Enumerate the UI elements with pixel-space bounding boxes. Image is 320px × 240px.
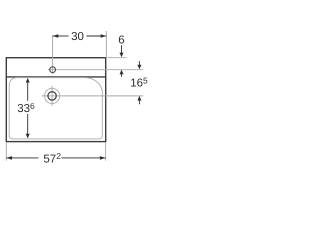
dim 57.2 extension line right	[105, 143, 107, 161]
tap hole centerline vertical (extension for dim 30)	[52, 35, 54, 74]
deck front edge line	[6, 76, 107, 78]
dim 33.6 down arrowhead	[26, 134, 30, 139]
dim 16.5 upper leader	[138, 61, 140, 66]
dim 30 extension line right	[105, 31, 107, 57]
dim 6 lower leader	[121, 74, 123, 77]
washbasin outer outline	[6, 58, 105, 142]
dim 33.6 lower segment	[27, 114, 29, 135]
dim 16.5 up arrowhead	[137, 96, 141, 101]
dim 6 down arrowhead	[120, 53, 124, 58]
drain inner circle	[48, 92, 56, 100]
dim 16.5 lower leader	[138, 100, 140, 105]
top edge extension line right	[107, 57, 126, 59]
dim 33.6 up arrowhead	[26, 78, 30, 83]
basin inner outline	[9, 78, 102, 139]
tap hole centerline horizontal (reference for dim 6 / 16.5)	[48, 69, 143, 71]
dim 57.2 line left segment	[6, 157, 38, 159]
dim 30 line left segment	[53, 35, 69, 37]
dim 6 upper leader	[121, 45, 123, 53]
drain centerline horizontal (reference for dim 16.5)	[42, 95, 143, 97]
drain centerline vertical	[51, 86, 53, 106]
dim 6 up arrowhead	[120, 70, 124, 75]
dim 57.2 line right segment	[62, 157, 106, 159]
dim 33.6 upper segment	[27, 82, 29, 101]
dim 30 right arrowhead	[101, 34, 107, 38]
dim 57.2 extension line left	[5, 143, 7, 161]
tap hole circle	[50, 67, 56, 73]
dim 57.2 left arrowhead	[6, 156, 12, 160]
drain outer circle	[45, 88, 60, 103]
dim 57.2 right arrowhead	[100, 156, 106, 160]
dim 30 line right segment	[87, 35, 107, 37]
dim 16.5 down arrowhead	[137, 65, 141, 70]
svg-text:30: 30	[71, 31, 84, 43]
dim 30 left arrowhead	[53, 34, 59, 38]
svg-text:6: 6	[118, 34, 124, 46]
